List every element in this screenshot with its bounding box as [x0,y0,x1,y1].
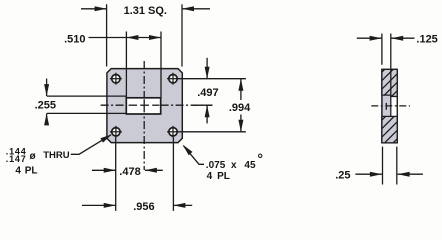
extension line .25 left [382,147,384,185]
dimension .125 [357,33,438,45]
dimension .497 [197,58,218,124]
dimension .255 [35,79,56,126]
side view horizontal centerline [371,105,410,107]
svg-text:1.31 SQ.: 1.31 SQ. [124,5,167,17]
leader to bottom-right chamfer [183,145,204,165]
top hatched block [374,52,402,114]
waveguide slot aperture [126,98,160,114]
svg-text:.510: .510 [64,33,85,45]
dimension 1.31 SQ. [81,5,210,17]
svg-text:.147: .147 [6,154,27,164]
svg-text:.255: .255 [35,99,56,111]
svg-text:.478: .478 [119,166,140,178]
vertical centerline [143,61,145,170]
hole bottom-right [167,126,179,138]
svg-text:45: 45 [244,160,256,171]
dimension .510 [64,33,161,45]
dimension .994 [229,79,251,132]
extension line slot-top (.255) [47,95,126,97]
svg-text:4: 4 [207,171,213,182]
svg-text:PL: PL [217,171,230,182]
svg-text:.125: .125 [416,33,437,45]
flange body (front view, chamfered square) [107,69,182,143]
extension line .25 right [396,147,398,185]
centerline solid extension right (.497 landing) [192,104,213,106]
bottom hole row extension line (right) [179,131,246,133]
note .144/.147 THRU 4 PL [6,146,70,176]
dimension .25 [335,169,423,181]
svg-text:PL: PL [25,166,38,177]
hole bottom-left [110,126,122,138]
dimension .956 [82,201,192,213]
horizontal centerline [101,104,213,106]
leader to bottom-left hole [71,134,112,154]
svg-text:4: 4 [15,166,21,177]
side view body [382,69,397,142]
bottom hatched block [374,100,402,162]
svg-text:.497: .497 [197,87,218,99]
svg-text:.956: .956 [133,201,154,213]
svg-text:.994: .994 [229,102,251,114]
hole column extension line right [172,138,174,211]
note .075 x 45 deg 4 PL [206,154,262,182]
extension line .125 left [381,34,383,65]
top hole row extension line (right) [179,78,246,80]
svg-text:.075: .075 [206,160,226,171]
svg-text:THRU: THRU [43,150,70,161]
extension line 1.31 right [181,4,183,66]
hole top-right [167,73,179,85]
extension line slot-left [125,32,127,98]
svg-text:.25: .25 [335,169,350,181]
hole column extension line left [115,138,117,211]
svg-text:x: x [231,160,237,171]
hole top-left [110,73,122,85]
center cross tick [385,103,387,110]
extension line 1.31 left [106,4,108,66]
extension line slot-bottom (.255) [47,112,126,114]
slot center cross [143,99,145,112]
extension line slot-right [160,32,162,98]
groove box (right middle) [391,97,397,117]
svg-text:ø: ø [30,151,37,162]
dimension .478 [92,166,163,178]
extension line .125 right / counterbore line [390,34,392,97]
